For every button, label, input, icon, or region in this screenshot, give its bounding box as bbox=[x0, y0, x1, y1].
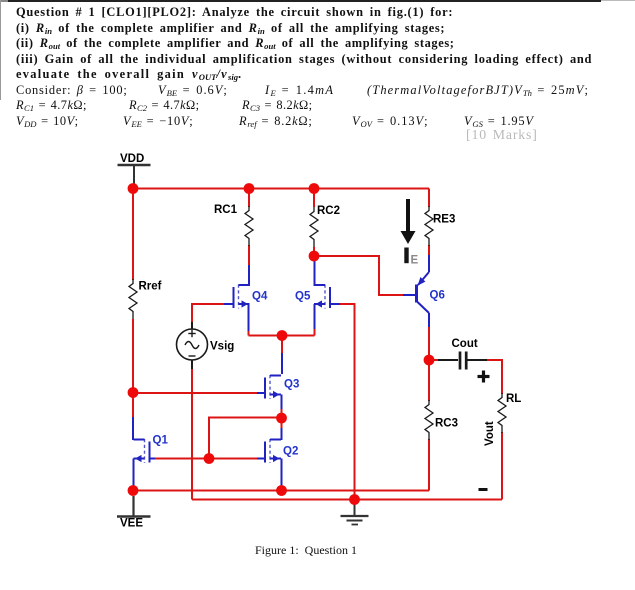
svg-text:Q4: Q4 bbox=[252, 291, 268, 303]
wire feedback Q3 source to gates bbox=[209, 418, 282, 459]
header text bbox=[16, 5, 453, 20]
transistor Q2 bbox=[265, 439, 281, 463]
wire Q5 source blue bbox=[314, 304, 316, 329]
wire RL bottom to ground rail bbox=[501, 432, 503, 500]
wire Q1-Q2 gate line bbox=[154, 458, 258, 460]
wire Q1 drain blue bbox=[132, 417, 134, 440]
wire Q5 gate to ground column bbox=[339, 304, 355, 500]
svg-text:RC3: RC3 bbox=[435, 418, 458, 430]
resistor RL bbox=[498, 393, 506, 433]
wire output node to RC3 bbox=[428, 360, 430, 401]
label IE bbox=[404, 248, 408, 264]
svg-text:Q3: Q3 bbox=[284, 379, 299, 391]
wire Q6 collector blue bbox=[428, 313, 430, 327]
node Q3 source junction bbox=[276, 413, 287, 424]
wire RC2 top lead bbox=[313, 189, 315, 208]
wire output node to Cout bbox=[429, 359, 438, 361]
wire Q5 source lower bbox=[314, 328, 316, 336]
svg-text:RE3: RE3 bbox=[433, 214, 455, 226]
svg-text:Q2: Q2 bbox=[283, 446, 298, 458]
wire Q2 drain upper bbox=[281, 418, 283, 429]
node RC2 top junction bbox=[309, 183, 320, 194]
wire Q5 gate stub blue bbox=[330, 303, 340, 305]
wire RC1 top lead bbox=[248, 189, 250, 208]
wire Cout to RL top bbox=[487, 360, 502, 394]
svg-text:RL: RL bbox=[506, 393, 521, 405]
node RC1 top junction bbox=[244, 183, 255, 194]
resistor RC3 bbox=[425, 400, 433, 440]
wire VDD rail bbox=[133, 188, 429, 190]
resistor RE3 bbox=[425, 206, 433, 246]
wire Q6 collector drop bbox=[428, 326, 430, 360]
wire RE3 bottom lead bbox=[428, 245, 430, 256]
top border bbox=[8, 0, 601, 2]
svg-text:Q6: Q6 bbox=[430, 290, 445, 302]
svg-text:Vout: Vout bbox=[484, 421, 496, 446]
wire Q3 gate stub blue bbox=[257, 392, 265, 394]
source Vsig bbox=[177, 322, 208, 369]
wire Q2 source blue bbox=[281, 459, 283, 488]
wire Q3 drain blue bbox=[281, 353, 283, 374]
wire Q4 source blue bbox=[248, 304, 250, 331]
node tail junction bbox=[277, 330, 288, 341]
svg-text:RC2: RC2 bbox=[317, 205, 340, 217]
wire Q5 drain blue bbox=[314, 256, 316, 286]
wire RC3 bottom to VEE rail bbox=[428, 439, 430, 491]
svg-text:Rref: Rref bbox=[139, 281, 162, 293]
svg-text:RC1: RC1 bbox=[214, 204, 238, 216]
wire RC2 node to Q6 base bbox=[314, 256, 404, 295]
wire Q6 emitter blue bbox=[428, 255, 430, 272]
node ground junction bbox=[349, 494, 360, 505]
wire Q1 source blue bbox=[133, 459, 135, 489]
resistor RC1 bbox=[245, 206, 253, 246]
wire Q2 drain blue bbox=[281, 428, 283, 440]
wire Vsig plus to Q4 gate bbox=[192, 304, 224, 322]
resistor RC2 bbox=[310, 207, 318, 247]
label plus sign bbox=[478, 371, 490, 383]
node Q3 gate tap junction bbox=[128, 387, 139, 398]
transistor Q4 bbox=[234, 285, 250, 309]
wire Q6 base stub blue bbox=[403, 294, 415, 296]
node VDD-left junction bbox=[128, 183, 139, 194]
wire Q3 source drop bbox=[281, 408, 283, 418]
figure caption bbox=[255, 543, 357, 558]
node Q2 source junction bbox=[276, 485, 287, 496]
wire RE3 top drop bbox=[428, 189, 430, 208]
wire tail drop to Q3 bbox=[281, 336, 283, 355]
wire Q1 source lower bbox=[133, 487, 135, 491]
current arrow IE bbox=[401, 199, 416, 244]
node RC2 bottom junction bbox=[309, 251, 320, 262]
wire left column upper (VDD to Rref) bbox=[132, 189, 134, 281]
wire Q4 drain blue bbox=[248, 265, 250, 286]
capacitor Cout bbox=[438, 352, 487, 370]
transistor Q6 (PNP BJT) bbox=[417, 272, 430, 313]
svg-text:Q1: Q1 bbox=[153, 435, 169, 447]
wire RC2 bottom to node bbox=[313, 247, 315, 256]
wire Q3 gate line bbox=[133, 392, 258, 394]
wire Q1 gate stub blue bbox=[150, 458, 155, 460]
resistor Rref bbox=[129, 279, 137, 319]
wire Q2 source lower bbox=[281, 486, 283, 491]
transistor Q5 bbox=[314, 285, 330, 309]
wire tail rail bbox=[249, 335, 315, 337]
wire Q4 gate stub blue bbox=[224, 303, 233, 305]
transistor Q1 bbox=[134, 439, 150, 463]
node VEE-left junction bbox=[128, 485, 139, 496]
node mirror gate junction bbox=[204, 453, 215, 464]
ground symbol bbox=[341, 500, 369, 525]
node output junction bbox=[424, 355, 435, 366]
svg-text:Cout: Cout bbox=[452, 338, 478, 350]
svg-text:Vsig: Vsig bbox=[210, 341, 234, 353]
wire Vsig minus drop bbox=[191, 368, 193, 500]
wire Q4 source lower bbox=[248, 330, 250, 336]
svg-text:E: E bbox=[411, 255, 419, 267]
wire ground rail bbox=[192, 499, 502, 501]
label minus sign bbox=[479, 488, 488, 491]
wire Q3 source blue bbox=[281, 395, 283, 410]
wire left column mid (Rref to Q1 drain) bbox=[132, 319, 134, 418]
svg-text:Q5: Q5 bbox=[295, 291, 311, 303]
svg-text:VEE: VEE bbox=[120, 518, 143, 530]
svg-text:VDD: VDD bbox=[120, 153, 144, 165]
wire VEE rail bbox=[133, 490, 429, 492]
VEE power symbol bbox=[117, 496, 151, 517]
wire Q2 gate stub blue bbox=[257, 458, 265, 460]
transistor Q3 bbox=[265, 375, 281, 399]
wire RC1 bottom lead bbox=[248, 245, 250, 266]
VDD power symbol bbox=[118, 165, 151, 184]
